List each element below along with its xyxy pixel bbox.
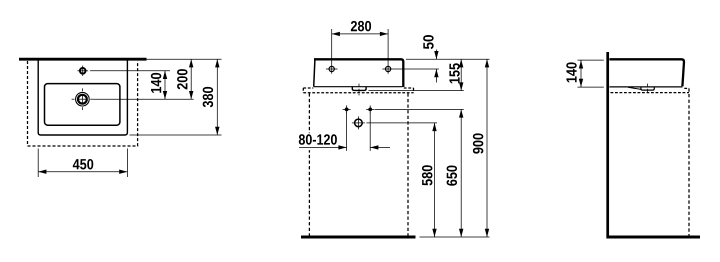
dimension 900 [473,59,489,237]
basin side profile [609,59,684,89]
dimension 140 (side) [566,60,583,87]
pedestal right dashed edge [407,93,409,235]
dimension 80-120 [296,133,391,150]
wall line (plan view) [19,58,147,61]
floor bar (front) [301,236,416,239]
extension line tap hole (plan) [90,70,170,72]
basin outer rim (plan) [38,60,127,135]
dimension 450 (plan) [38,149,127,178]
dimension 50 [423,35,438,82]
wall fixing cross right [366,105,374,113]
drain outlet (side) [641,84,654,93]
fixing hole left (front) [326,64,338,73]
inner bowl (plan) [45,84,120,126]
extension line basin bottom (side) [578,86,604,88]
dimension 650 [447,109,464,237]
extension line wall top (plan) [147,58,222,60]
supply point cross (front) [352,116,365,129]
dimension 580 [422,123,437,237]
drain outlet (front) [352,84,366,96]
drain with centerlines (plan) [72,88,94,110]
extension line lowest point to 155 [369,90,464,92]
extension line basin front (plan) [130,134,222,136]
dimension 140 (plan) [151,71,167,99]
pedestal left dashed edge [308,93,310,235]
extension line supply to 580 [366,122,437,124]
wall fixing cross left [343,105,351,113]
dimension 380 (plan) [203,59,220,135]
dashed cabinet outline (side) [611,88,690,235]
dimension 280 (front) [332,21,388,65]
floor extension line (front) [420,236,490,238]
dimension 155 [449,59,463,90]
extension line crosses to 650 [375,108,464,110]
dashed shelf outline (front) [303,88,413,93]
floor bar (side) [607,236,700,239]
drop line left cross [346,112,348,151]
dimension 200 (plan) [177,59,193,99]
dashed installation outline (plan) [28,61,138,146]
extension line fixing hole to 50 dim [394,68,439,70]
extension line basin top (side) [578,59,604,61]
extension line drain (plan) [93,98,194,100]
extension line basin top right [406,58,490,60]
wall line (side view) [606,52,609,239]
basin front face [314,59,404,87]
tap hole (plan) [77,66,88,76]
fixing hole right (front) [382,64,394,73]
drop line right cross [369,112,371,151]
